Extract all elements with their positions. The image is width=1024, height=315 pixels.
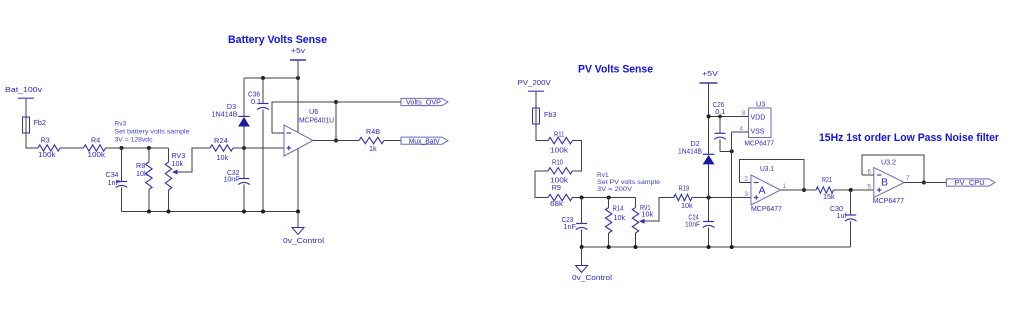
svg-text:10k: 10k: [681, 201, 693, 210]
net flag PV_CPU: [946, 179, 995, 186]
node C23 top: [580, 196, 584, 200]
diode D3 1N4148: [243, 78, 245, 111]
svg-text:VSS: VSS: [751, 129, 765, 136]
svg-text:10k: 10k: [136, 169, 148, 178]
wire R11 to R10: [572, 141, 581, 171]
svg-text:R10: R10: [552, 158, 563, 167]
svg-text:68k: 68k: [550, 199, 563, 208]
ferrite bead Fb2: [25, 117, 27, 133]
svg-text:1: 1: [783, 184, 787, 190]
svg-text:Set PV volts sample: Set PV volts sample: [597, 179, 660, 186]
wire Volts_OVP: [336, 101, 401, 103]
node R14 top: [607, 196, 611, 200]
svg-text:3V = 200V: 3V = 200V: [597, 186, 633, 193]
svg-text:Fb2: Fb2: [34, 118, 46, 127]
node rail R14: [607, 245, 611, 249]
capacitor C23: [581, 198, 583, 224]
wire RV1 wiper to R19: [645, 198, 674, 222]
node C36 top: [261, 76, 265, 80]
resistor R14: [608, 198, 610, 208]
resistor R19: [674, 194, 692, 200]
node rail RV3: [167, 210, 171, 214]
resistor R11: [548, 137, 572, 143]
wire PV_200V to Fb3: [535, 92, 537, 108]
svg-text:10nF: 10nF: [685, 220, 701, 229]
node rail U6: [296, 210, 300, 214]
svg-text:PV_200V: PV_200V: [518, 78, 551, 87]
svg-text:R21: R21: [822, 175, 832, 184]
node rail VSS: [730, 245, 734, 249]
svg-text:R24: R24: [214, 136, 228, 145]
resistor R10: [548, 168, 572, 174]
resistor R21: [816, 187, 834, 193]
wire 0v rail left: [122, 211, 299, 213]
net flag Mux_BatV: [401, 137, 448, 144]
wire U6 feedback: [272, 102, 336, 133]
diode D2 1N4148: [708, 116, 710, 148]
wire R10 to R9: [535, 171, 548, 198]
svg-text:0.1: 0.1: [715, 107, 725, 116]
node U3.2 output: [922, 181, 926, 185]
wire U3 VSS pin 4: [732, 131, 749, 133]
svg-text:Battery Volts Sense: Battery Volts Sense: [228, 34, 327, 46]
svg-text:PV_CPU: PV_CPU: [955, 180, 985, 187]
svg-text:MCP6477: MCP6477: [745, 139, 775, 148]
svg-text:10k: 10k: [614, 213, 626, 222]
svg-text:Fb3: Fb3: [544, 110, 556, 119]
svg-text:Rv1: Rv1: [597, 172, 609, 179]
svg-text:A: A: [759, 185, 766, 197]
ferrite bead Fb3: [535, 108, 537, 124]
node C30 top: [849, 188, 853, 192]
svg-text:100k: 100k: [550, 146, 568, 155]
wire Fb3 to R11: [536, 124, 548, 141]
svg-text:0.1: 0.1: [251, 97, 261, 106]
wire R4B to Mux_BatV: [384, 140, 401, 142]
svg-text:10k: 10k: [217, 153, 229, 162]
resistor R3: [38, 145, 60, 151]
capacitor C34: [121, 148, 123, 182]
svg-text:1nF: 1nF: [108, 178, 121, 187]
svg-text:U3: U3: [756, 100, 765, 109]
wire VSS to 0v rail: [731, 132, 733, 247]
svg-text:MCP6401U: MCP6401U: [299, 116, 334, 125]
resistor R24: [210, 145, 233, 151]
power block U3 MCP6477: [749, 108, 771, 137]
ground 0v_Control right: [581, 247, 583, 266]
svg-text:Set battery volts sample: Set battery volts sample: [115, 129, 190, 136]
svg-text:7: 7: [906, 176, 910, 182]
svg-text:10k: 10k: [172, 159, 184, 168]
svg-text:R19: R19: [679, 184, 690, 193]
node C26 bottom VSS line: [730, 149, 734, 153]
wire Fb2 to R3: [26, 133, 38, 148]
svg-text:15k: 15k: [823, 192, 835, 201]
resistor R4: [84, 145, 106, 151]
svg-text:R9: R9: [552, 183, 561, 192]
node rail C32: [242, 210, 246, 214]
wire R9 to RV1 top: [572, 197, 635, 199]
wire U3.2 output to PV_CPU: [904, 182, 946, 184]
node rail C24: [707, 245, 711, 249]
wire R21 to U3.2: [834, 189, 874, 191]
capacitor C30: [850, 190, 852, 215]
wire 0v rail right: [582, 246, 851, 248]
node R8 top: [147, 146, 151, 150]
svg-text:Mux_BatV: Mux_BatV: [409, 138, 440, 145]
wire U3.2 feedback: [862, 155, 924, 183]
svg-text:R4B: R4B: [366, 127, 380, 136]
node rail RV1: [634, 245, 638, 249]
resistor R4B: [359, 137, 384, 143]
svg-text:R14: R14: [613, 204, 624, 213]
capacitor C32: [243, 148, 245, 179]
potentiometer RV1: [635, 198, 637, 208]
capacitor C26: [719, 116, 721, 133]
node D2 anode: [707, 196, 711, 200]
node rail ground: [580, 245, 584, 249]
wire U3.2 inverting input: [862, 174, 874, 176]
wire RV3 wiper to R24: [178, 148, 211, 172]
svg-text:1uf: 1uf: [837, 211, 847, 220]
resistor R9: [548, 194, 572, 200]
net flag Volts_OVP: [401, 98, 448, 105]
wire +5V to U3 VDD pin 8: [709, 115, 749, 117]
wire R4 to RV3 top: [106, 147, 169, 149]
op-amp U3.1 MCP6477: [751, 175, 781, 205]
svg-text:Rv3: Rv3: [115, 121, 127, 128]
node D3 anode: [242, 146, 246, 150]
svg-text:R4: R4: [91, 136, 100, 145]
wire U3.1 output to R21: [781, 189, 817, 191]
wire Bat_100v to Fb2: [25, 99, 27, 117]
svg-text:100k: 100k: [38, 150, 56, 159]
svg-text:R3: R3: [41, 136, 50, 145]
resistor R8: [148, 148, 150, 162]
wire R24 to opamp noninverting input: [233, 147, 284, 149]
node +5V D2: [707, 114, 711, 118]
wire U6 output: [313, 140, 359, 142]
wire R19 to U3.1 noninverting input: [692, 197, 751, 199]
node rail C36: [261, 210, 265, 214]
node +5v stem: [296, 76, 300, 80]
node C34 top: [120, 146, 124, 150]
svg-text:1N414B: 1N414B: [678, 147, 702, 156]
wire U3.1 inverting input: [739, 182, 751, 184]
node C26 top: [718, 115, 722, 119]
potentiometer RV3: [168, 148, 170, 162]
svg-text:1k: 1k: [369, 144, 377, 153]
wire U3.1 feedback: [739, 159, 804, 190]
svg-text:Volts_OVP: Volts_OVP: [406, 100, 441, 107]
svg-text:0v_Control: 0v_Control: [572, 273, 612, 282]
svg-text:U3.1: U3.1: [760, 164, 774, 173]
svg-text:MCP6477: MCP6477: [751, 204, 782, 213]
svg-text:100k: 100k: [88, 150, 106, 159]
capacitor C36: [262, 78, 264, 104]
wire U6 inverting input: [272, 132, 284, 134]
wire R3 to R4: [60, 147, 84, 149]
node rail R8: [147, 210, 151, 214]
op-amp U6 MCP6401U: [284, 125, 313, 156]
node U3.1 output: [802, 188, 806, 192]
op-amp U3.2 MCP6477: [874, 168, 905, 198]
svg-text:U3.2: U3.2: [881, 158, 896, 167]
svg-text:MCP6477: MCP6477: [873, 196, 905, 205]
wire +5v rail: [244, 77, 298, 79]
svg-text:B: B: [881, 177, 888, 189]
svg-text:10nF: 10nF: [224, 175, 241, 184]
svg-text:1N414B: 1N414B: [212, 110, 238, 119]
svg-text:Bat_100v: Bat_100v: [5, 85, 42, 94]
svg-text:3V = 128vdc: 3V = 128vdc: [115, 137, 154, 144]
svg-text:PV Volts Sense: PV Volts Sense: [578, 64, 653, 76]
capacitor C24: [708, 198, 710, 222]
wire feedback vertical: [335, 102, 337, 141]
svg-text:2: 2: [745, 177, 749, 183]
ground 0v_Control left: [297, 212, 299, 228]
svg-text:+5V: +5V: [702, 69, 718, 78]
svg-text:1nF: 1nF: [564, 222, 577, 231]
svg-text:10k: 10k: [642, 210, 654, 219]
svg-text:R11: R11: [554, 130, 565, 139]
svg-text:+5v: +5v: [291, 46, 305, 55]
svg-text:15Hz 1st order Low Pass Noise: 15Hz 1st order Low Pass Noise filter: [819, 132, 1000, 144]
svg-text:0v_Control: 0v_Control: [283, 236, 324, 245]
svg-text:VDD: VDD: [751, 115, 766, 122]
node U6 output: [334, 139, 338, 143]
node feedback top: [334, 100, 338, 104]
